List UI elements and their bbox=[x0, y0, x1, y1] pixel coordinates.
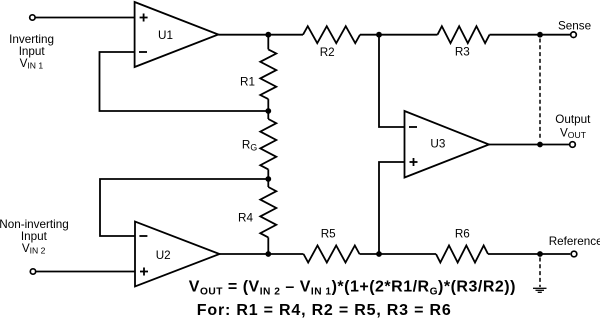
terminal: Sense bbox=[571, 32, 577, 38]
terminal: non-inverting input bbox=[30, 269, 35, 274]
svg-text:Output: Output bbox=[555, 113, 591, 126]
node I (R6 / Reference) bbox=[537, 251, 543, 257]
svg-text:R5: R5 bbox=[321, 228, 336, 241]
wire node A to R2 bbox=[268, 34, 303, 36]
dashed wire Sense node to Output node bbox=[539, 39, 541, 141]
svg-text:R1: R1 bbox=[240, 76, 255, 89]
node F (R5 / R6 / U3 +) bbox=[376, 251, 382, 257]
resistor R1 bbox=[260, 49, 276, 99]
node D (R4 / U2 out / R5) bbox=[265, 251, 271, 257]
node A (U1 out / R1 / R2) bbox=[265, 32, 271, 38]
wire node A down to R1 bbox=[267, 35, 269, 50]
svg-text:VOUT: VOUT bbox=[560, 126, 587, 140]
svg-text:For: R1 = R4, R2 = R5, R3 = R6: For: R1 = R4, R2 = R5, R3 = R6 bbox=[197, 302, 452, 319]
dashed wire node I to ground bbox=[539, 258, 541, 288]
svg-text:R6: R6 bbox=[455, 228, 470, 241]
svg-text:VIN 2: VIN 2 bbox=[22, 242, 46, 256]
wire node I to Reference terminal bbox=[540, 253, 570, 255]
wire node B to RG bbox=[267, 111, 269, 119]
wire U2 output to node D bbox=[220, 253, 269, 255]
wire R1 to node B bbox=[267, 99, 269, 111]
svg-text:Sense: Sense bbox=[558, 20, 591, 33]
op-amp U1 bbox=[135, 2, 219, 67]
terminal: Reference bbox=[571, 251, 577, 257]
wire feedback node C to U2 - input bbox=[100, 179, 268, 236]
svg-text:R4: R4 bbox=[238, 212, 253, 225]
wire R4 to node D bbox=[267, 237, 269, 254]
svg-text:Input: Input bbox=[21, 230, 48, 243]
op-amp U3 bbox=[405, 111, 490, 178]
svg-text:Reference: Reference bbox=[549, 235, 600, 248]
wire R5 to node F bbox=[360, 253, 380, 255]
node E (R2 / R3 / U3 -) bbox=[376, 32, 382, 38]
svg-text:R3: R3 bbox=[455, 45, 470, 58]
wire node E down to U3 - input bbox=[379, 35, 405, 127]
wire U1 output to node A bbox=[218, 34, 268, 36]
wire node G to Sense terminal bbox=[540, 34, 570, 36]
wire node F up to U3 + input bbox=[379, 162, 405, 254]
resistor R2 bbox=[303, 26, 360, 43]
op-amp U2 bbox=[135, 222, 220, 287]
node B (R1 / RG / feedback U1) bbox=[265, 108, 271, 114]
svg-text:RG: RG bbox=[242, 139, 257, 153]
node C (RG / R4 / feedback U2) bbox=[265, 176, 271, 182]
svg-text:VIN 1: VIN 1 bbox=[20, 57, 44, 71]
resistor R3 bbox=[438, 26, 490, 43]
svg-text:Input: Input bbox=[19, 45, 46, 58]
svg-text:U2: U2 bbox=[156, 249, 171, 262]
svg-text:U1: U1 bbox=[158, 29, 173, 42]
wire R3 to node G bbox=[490, 34, 541, 36]
wire non-inverting input to U2 + bbox=[36, 271, 135, 273]
wire node E to R3 bbox=[379, 34, 438, 36]
wire U3 output to node H bbox=[489, 144, 540, 146]
wire node C to R4 bbox=[267, 179, 269, 187]
svg-text:R2: R2 bbox=[320, 46, 335, 59]
wire node H to Output terminal bbox=[540, 144, 569, 146]
terminal: Output bbox=[570, 142, 576, 148]
wire R6 to node I bbox=[488, 253, 540, 255]
label Non-inverting Input VIN2 bbox=[0, 218, 69, 255]
resistor R5 bbox=[304, 246, 360, 263]
wire R2 to node E bbox=[360, 34, 379, 36]
node G (R3 / Sense) bbox=[537, 32, 543, 38]
ground bbox=[533, 288, 547, 292]
wire inverting input to U1 + bbox=[35, 17, 135, 19]
wire node F to R6 bbox=[379, 253, 436, 255]
label Inverting Input VIN1 bbox=[9, 33, 54, 71]
wire node D to R5 bbox=[268, 253, 303, 255]
resistor RG bbox=[260, 119, 276, 169]
terminal: inverting input bbox=[30, 15, 35, 20]
svg-text:U3: U3 bbox=[430, 137, 445, 150]
node H (U3 out / Output) bbox=[537, 142, 543, 148]
wire feedback node B to U1 - input bbox=[100, 52, 269, 111]
svg-text:VOUT = (VIN 2 – VIN 1)*(1+(2*R: VOUT = (VIN 2 – VIN 1)*(1+(2*R1/RG)*(R3/… bbox=[189, 279, 516, 298]
wire RG to node C bbox=[267, 169, 269, 179]
resistor R4 bbox=[260, 187, 276, 237]
resistor R6 bbox=[436, 246, 488, 263]
